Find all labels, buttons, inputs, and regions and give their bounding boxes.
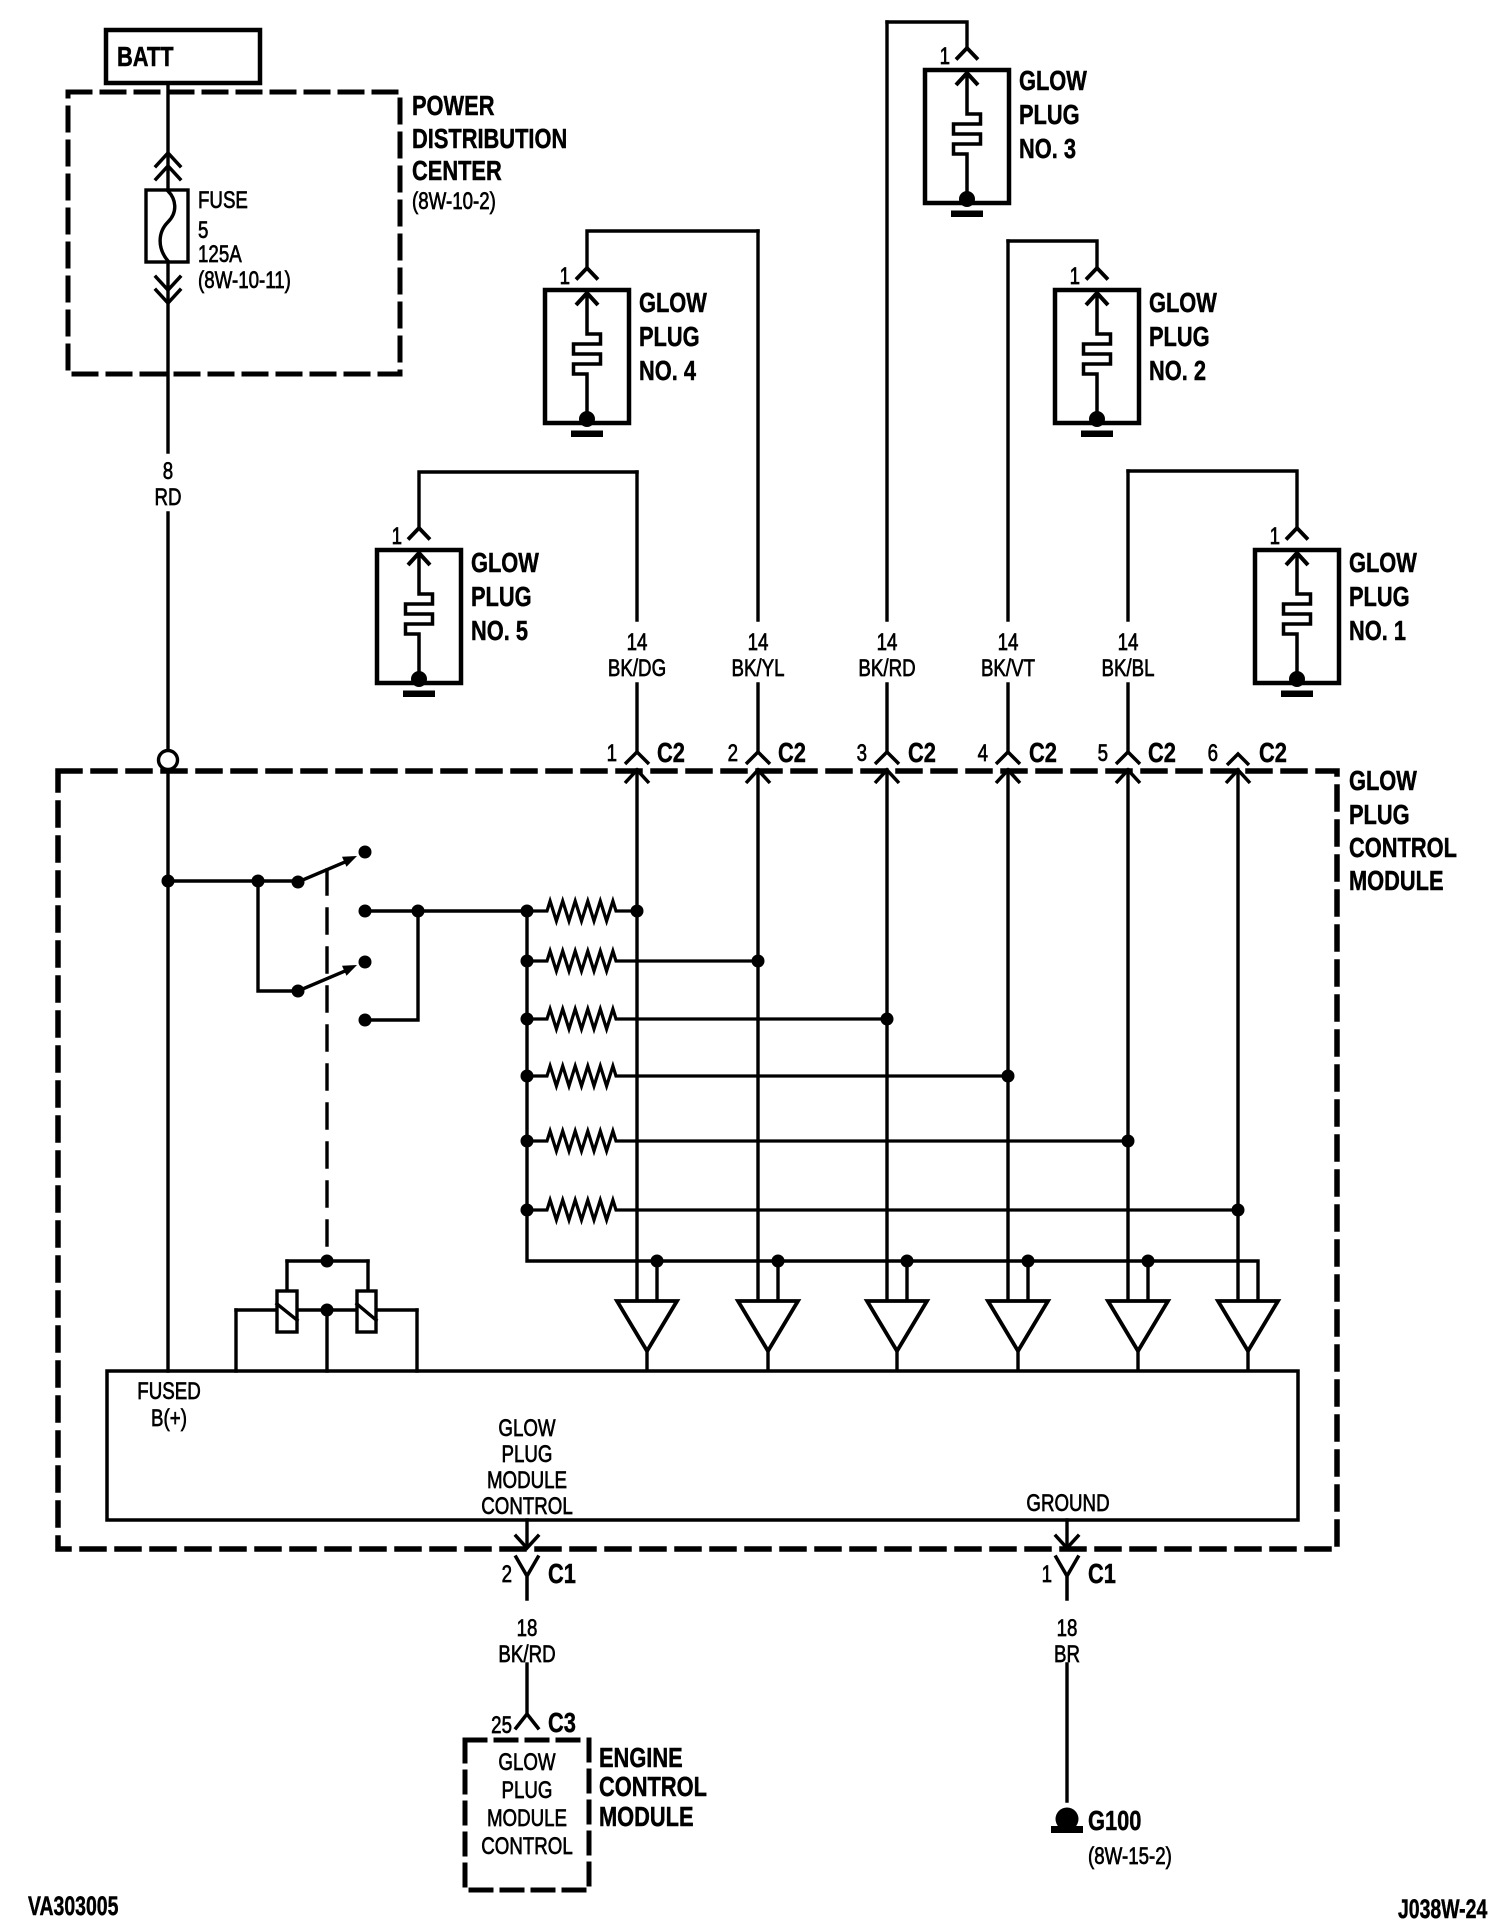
svg-text:BK/YL: BK/YL (731, 655, 784, 682)
svg-text:C1: C1 (1088, 1558, 1116, 1589)
svg-text:(8W-10-2): (8W-10-2) (412, 188, 496, 215)
svg-text:1: 1 (560, 263, 570, 290)
svg-text:DISTRIBUTION: DISTRIBUTION (412, 123, 567, 154)
svg-text:GLOW: GLOW (1019, 65, 1087, 96)
svg-text:14: 14 (1118, 629, 1139, 656)
svg-text:RD: RD (154, 484, 181, 511)
svg-text:(8W-10-11): (8W-10-11) (198, 267, 291, 294)
svg-text:CENTER: CENTER (412, 155, 502, 186)
svg-text:C2: C2 (1148, 737, 1176, 768)
svg-text:CONTROL: CONTROL (481, 1833, 573, 1860)
svg-text:GLOW: GLOW (639, 287, 707, 318)
svg-text:PLUG: PLUG (1019, 99, 1080, 130)
svg-text:4: 4 (978, 740, 988, 767)
svg-text:1: 1 (392, 523, 402, 550)
svg-text:ENGINE: ENGINE (599, 1742, 683, 1773)
svg-text:BK/DG: BK/DG (608, 655, 666, 682)
svg-text:NO. 3: NO. 3 (1019, 133, 1076, 164)
svg-text:BK/RD: BK/RD (498, 1641, 555, 1668)
svg-text:FUSE: FUSE (198, 187, 248, 214)
svg-text:25: 25 (491, 1712, 512, 1739)
svg-text:G100: G100 (1088, 1805, 1141, 1836)
svg-text:2: 2 (502, 1561, 512, 1588)
svg-text:GLOW: GLOW (1349, 765, 1417, 796)
svg-text:PLUG: PLUG (639, 321, 700, 352)
svg-text:C2: C2 (908, 737, 936, 768)
svg-text:C2: C2 (1259, 737, 1287, 768)
svg-text:PLUG: PLUG (1149, 321, 1210, 352)
svg-text:J038W-24: J038W-24 (1398, 1894, 1487, 1924)
svg-text:CONTROL: CONTROL (481, 1493, 573, 1520)
svg-text:2: 2 (728, 740, 738, 767)
svg-text:PLUG: PLUG (471, 581, 532, 612)
svg-text:BATT: BATT (117, 41, 174, 72)
svg-text:1: 1 (607, 740, 617, 767)
svg-text:1: 1 (940, 43, 950, 70)
svg-text:BR: BR (1054, 1641, 1080, 1668)
svg-text:NO. 2: NO. 2 (1149, 355, 1206, 386)
svg-text:PLUG: PLUG (1349, 581, 1410, 612)
svg-text:NO. 4: NO. 4 (639, 355, 696, 386)
svg-text:14: 14 (877, 629, 898, 656)
svg-text:B(+): B(+) (151, 1405, 187, 1432)
svg-text:1: 1 (1270, 523, 1280, 550)
svg-text:MODULE: MODULE (487, 1467, 567, 1494)
svg-text:18: 18 (1057, 1615, 1078, 1642)
svg-text:GLOW: GLOW (498, 1415, 556, 1442)
svg-text:BK/VT: BK/VT (981, 655, 1035, 682)
svg-text:1: 1 (1042, 1561, 1052, 1588)
svg-text:BK/BL: BK/BL (1101, 655, 1154, 682)
svg-text:FUSED: FUSED (137, 1378, 200, 1405)
svg-text:C2: C2 (657, 737, 685, 768)
svg-text:POWER: POWER (412, 90, 494, 121)
svg-text:NO. 1: NO. 1 (1349, 615, 1406, 646)
svg-text:GLOW: GLOW (1149, 287, 1217, 318)
svg-text:14: 14 (627, 629, 648, 656)
svg-text:GLOW: GLOW (471, 547, 539, 578)
svg-text:MODULE: MODULE (487, 1805, 567, 1832)
svg-text:BK/RD: BK/RD (858, 655, 915, 682)
svg-text:C2: C2 (778, 737, 806, 768)
svg-text:NO. 5: NO. 5 (471, 615, 528, 646)
svg-text:1: 1 (1070, 263, 1080, 290)
svg-text:PLUG: PLUG (1349, 799, 1410, 830)
svg-text:GROUND: GROUND (1026, 1490, 1109, 1517)
svg-text:C2: C2 (1029, 737, 1057, 768)
svg-text:6: 6 (1208, 740, 1218, 767)
svg-text:MODULE: MODULE (1349, 865, 1444, 896)
svg-text:CONTROL: CONTROL (599, 1771, 707, 1802)
svg-text:125A: 125A (198, 241, 242, 268)
svg-text:MODULE: MODULE (599, 1801, 694, 1832)
svg-text:18: 18 (517, 1615, 538, 1642)
svg-text:14: 14 (998, 629, 1019, 656)
svg-text:CONTROL: CONTROL (1349, 832, 1457, 863)
svg-text:VA303005: VA303005 (28, 1891, 118, 1921)
svg-text:PLUG: PLUG (502, 1777, 553, 1804)
svg-text:(8W-15-2): (8W-15-2) (1088, 1843, 1172, 1870)
svg-text:C3: C3 (548, 1707, 576, 1738)
svg-text:C1: C1 (548, 1558, 576, 1589)
svg-text:PLUG: PLUG (502, 1441, 553, 1468)
svg-text:5: 5 (198, 217, 208, 244)
svg-text:8: 8 (163, 458, 173, 485)
svg-text:14: 14 (748, 629, 769, 656)
svg-text:3: 3 (857, 740, 867, 767)
svg-text:GLOW: GLOW (498, 1749, 556, 1776)
svg-text:GLOW: GLOW (1349, 547, 1417, 578)
svg-text:5: 5 (1098, 740, 1108, 767)
